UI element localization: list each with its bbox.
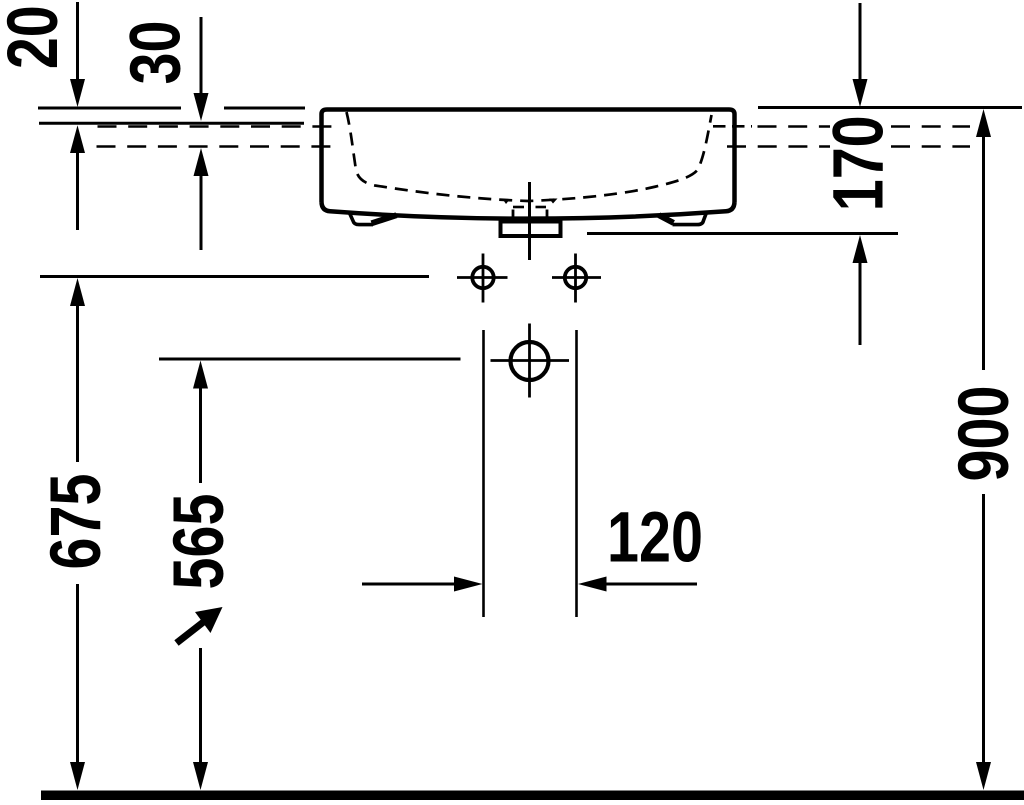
dim 20 arrowhead up [70, 125, 85, 153]
reference line tap holes (675) [40, 275, 429, 278]
counter top line [39, 122, 304, 125]
outlet direction arrow head [195, 607, 223, 633]
drain fitting dashed top left [513, 206, 524, 209]
inner bowl dashed profile [347, 112, 712, 201]
dashed mounting line upper right b [891, 125, 970, 128]
svg-text:20: 20 [0, 5, 72, 69]
extension line 120 left [482, 330, 485, 617]
drain fitting dashed top right [536, 206, 547, 209]
extension line 120 right [575, 330, 578, 617]
dim 30 arrowhead down [194, 93, 209, 121]
mixer hole crosshair vertical [528, 324, 531, 398]
mixer hole circle [511, 342, 549, 380]
drain fitting side tick left [512, 210, 515, 221]
dim 170 arrowhead down [853, 79, 868, 107]
svg-text:675: 675 [36, 474, 115, 570]
dim 675 shaft lower [76, 584, 79, 762]
dim 900 arrowhead down [976, 762, 991, 790]
dim 30 arrowhead up [194, 148, 209, 176]
reference line mixer hole (565) [159, 358, 461, 361]
drain fitting side tick right [546, 210, 549, 221]
dim 675 shaft upper [76, 306, 79, 462]
mixer hole crosshair horizontal [491, 359, 570, 362]
faucet hole right crosshair horizontal [552, 276, 601, 279]
faucet hole left crosshair horizontal [457, 276, 508, 279]
washbasin outer outline [322, 110, 735, 203]
dim 20 shaft upper [76, 2, 79, 80]
dim 120 right arrow shaft [606, 583, 697, 586]
dim 900 shaft lower [982, 494, 985, 762]
dashed mounting line upper right a2 [758, 125, 831, 128]
svg-text:30: 30 [116, 21, 195, 85]
dim 675 arrowhead down [70, 762, 85, 790]
dim 120 left arrowhead [454, 577, 483, 592]
dim 120 right arrowhead [578, 577, 607, 592]
reference line under basin (170 lower) [587, 232, 898, 235]
dim 170 shaft lower [859, 263, 862, 345]
dim 120 left arrow shaft [362, 583, 454, 586]
svg-text:120: 120 [607, 498, 703, 577]
dim 30 shaft upper [200, 17, 203, 94]
dim 565 shaft upper [199, 389, 202, 484]
drain flange box [501, 222, 561, 237]
dashed mounting line upper left [98, 125, 335, 128]
dim 20 shaft lower [76, 153, 79, 230]
dim 170 arrowhead up [853, 235, 868, 263]
dashed mounting line lower left [97, 145, 335, 148]
faucet hole right circle [565, 267, 586, 288]
svg-text:565: 565 [159, 494, 238, 590]
dim 565 arrowhead up [193, 361, 208, 389]
washbasin bottom edge [322, 202, 735, 219]
dashed mounting line upper right a1 [713, 125, 752, 128]
dim 565 arrowhead down [193, 762, 208, 790]
bowl drain recess tick left [503, 199, 511, 204]
faucet hole left circle [472, 267, 493, 288]
dashed mounting line lower right b [891, 145, 970, 148]
rim reference line left segment 1 [38, 107, 181, 110]
dim 30 shaft lower [200, 176, 203, 250]
dim 900 shaft upper [982, 137, 985, 370]
left foot wall [350, 213, 374, 225]
rim reference line right segment [758, 106, 1022, 109]
svg-text:900: 900 [944, 386, 1023, 482]
faucet hole right crosshair vertical [574, 254, 577, 303]
dim 20 arrowhead down [70, 79, 85, 107]
faucet hole left crosshair vertical [482, 254, 485, 303]
dashed mounting line lower right a [727, 145, 830, 148]
rim reference line left segment 2 [224, 107, 305, 110]
bowl drain recess tick right [549, 199, 558, 204]
right foot wall [673, 213, 707, 225]
left foot wedge [372, 215, 397, 223]
right foot wedge [659, 215, 674, 223]
svg-text:170: 170 [819, 115, 898, 211]
dim 900 arrowhead up [976, 109, 991, 137]
dim 565 shaft lower [199, 648, 202, 762]
dim 675 arrowhead up [70, 278, 85, 306]
floor line [41, 791, 1024, 801]
dim 170 shaft upper [859, 3, 862, 79]
drain center line [528, 182, 531, 260]
outlet direction arrow shaft [177, 620, 207, 643]
